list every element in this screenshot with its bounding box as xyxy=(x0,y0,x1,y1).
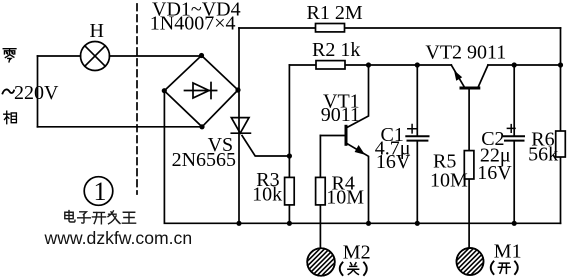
svg-text:220V: 220V xyxy=(14,82,59,104)
circled 1 figure number xyxy=(84,177,113,206)
transistor VT2 xyxy=(451,65,488,88)
svg-text:16V: 16V xyxy=(376,151,411,173)
glyph 发 xyxy=(108,211,120,224)
resistor R1 xyxy=(316,24,345,32)
thyristor VS 2N6565 xyxy=(231,118,250,134)
glyph 开 xyxy=(498,263,510,273)
wire VT2 base / R5 xyxy=(468,88,470,248)
wire AC neutral top xyxy=(38,55,202,57)
glyph 开 xyxy=(92,212,105,223)
touch plate M1 xyxy=(441,233,499,278)
glyph 王 xyxy=(122,212,135,223)
svg-text:2N6565: 2N6565 xyxy=(172,149,236,171)
wire ground bottom rail xyxy=(164,91,560,224)
glyph 电 xyxy=(65,211,75,222)
resistor R2 xyxy=(316,61,345,69)
svg-text:www.dzkfw.com.cn: www.dzkfw.com.cn xyxy=(44,228,193,248)
diode symbol inside bridge xyxy=(185,83,217,99)
resistor R5 xyxy=(464,151,474,179)
wire VS gate xyxy=(242,136,289,157)
transistor VT1 xyxy=(320,65,368,223)
svg-text:10M: 10M xyxy=(326,186,364,208)
svg-text:56k: 56k xyxy=(528,143,558,165)
resistor R3 xyxy=(285,177,295,205)
svg-text:10M: 10M xyxy=(430,169,468,191)
CJK glyph: 零 (neutral) xyxy=(3,49,16,62)
wire VT1 base / R4 xyxy=(319,136,321,249)
capacitor C2 xyxy=(504,65,524,223)
svg-text:VT2 9011: VT2 9011 xyxy=(425,42,506,64)
wire R1 top rail xyxy=(239,27,561,29)
svg-text:16V: 16V xyxy=(477,162,512,184)
CJK label: （开） M1 on xyxy=(491,262,518,275)
CJK watermark: 电子开发王 xyxy=(65,211,136,224)
glyph 关 xyxy=(348,263,359,275)
lamp H xyxy=(81,42,110,71)
resistor R4 xyxy=(316,177,326,205)
wire R2-R3 vertical xyxy=(288,65,290,223)
svg-text:R1 2M: R1 2M xyxy=(307,2,363,24)
wire R2 rail xyxy=(289,64,451,66)
wire right vertical xyxy=(560,28,562,223)
svg-text:1: 1 xyxy=(94,177,107,206)
CJK glyph: 相 (live) xyxy=(4,111,17,124)
svg-text:1N4007×4: 1N4007×4 xyxy=(150,13,236,35)
CJK label: （关） M2 off xyxy=(340,263,367,276)
svg-text:M2: M2 xyxy=(343,242,371,264)
wire AC left vertical xyxy=(37,56,39,127)
glyph 子 xyxy=(78,212,91,223)
tilde of ~220V xyxy=(3,89,15,93)
bridge rectifier VD1-VD4 xyxy=(164,56,238,127)
dashed separator line xyxy=(136,4,138,194)
touch plate M2 xyxy=(292,233,350,278)
svg-text:10k: 10k xyxy=(252,183,282,205)
wire AC live bottom xyxy=(38,126,203,128)
resistor R6 xyxy=(556,131,566,157)
wire VT2 collector rail xyxy=(488,64,561,66)
svg-text:M1: M1 xyxy=(494,240,522,262)
svg-text:9011: 9011 xyxy=(321,104,360,126)
capacitor C1 xyxy=(406,65,428,223)
svg-text:R2 1k: R2 1k xyxy=(312,39,360,61)
wire bridge plus vertical (right vertex up to R1 rail, down to VS) xyxy=(238,28,240,223)
svg-text:H: H xyxy=(90,20,104,42)
